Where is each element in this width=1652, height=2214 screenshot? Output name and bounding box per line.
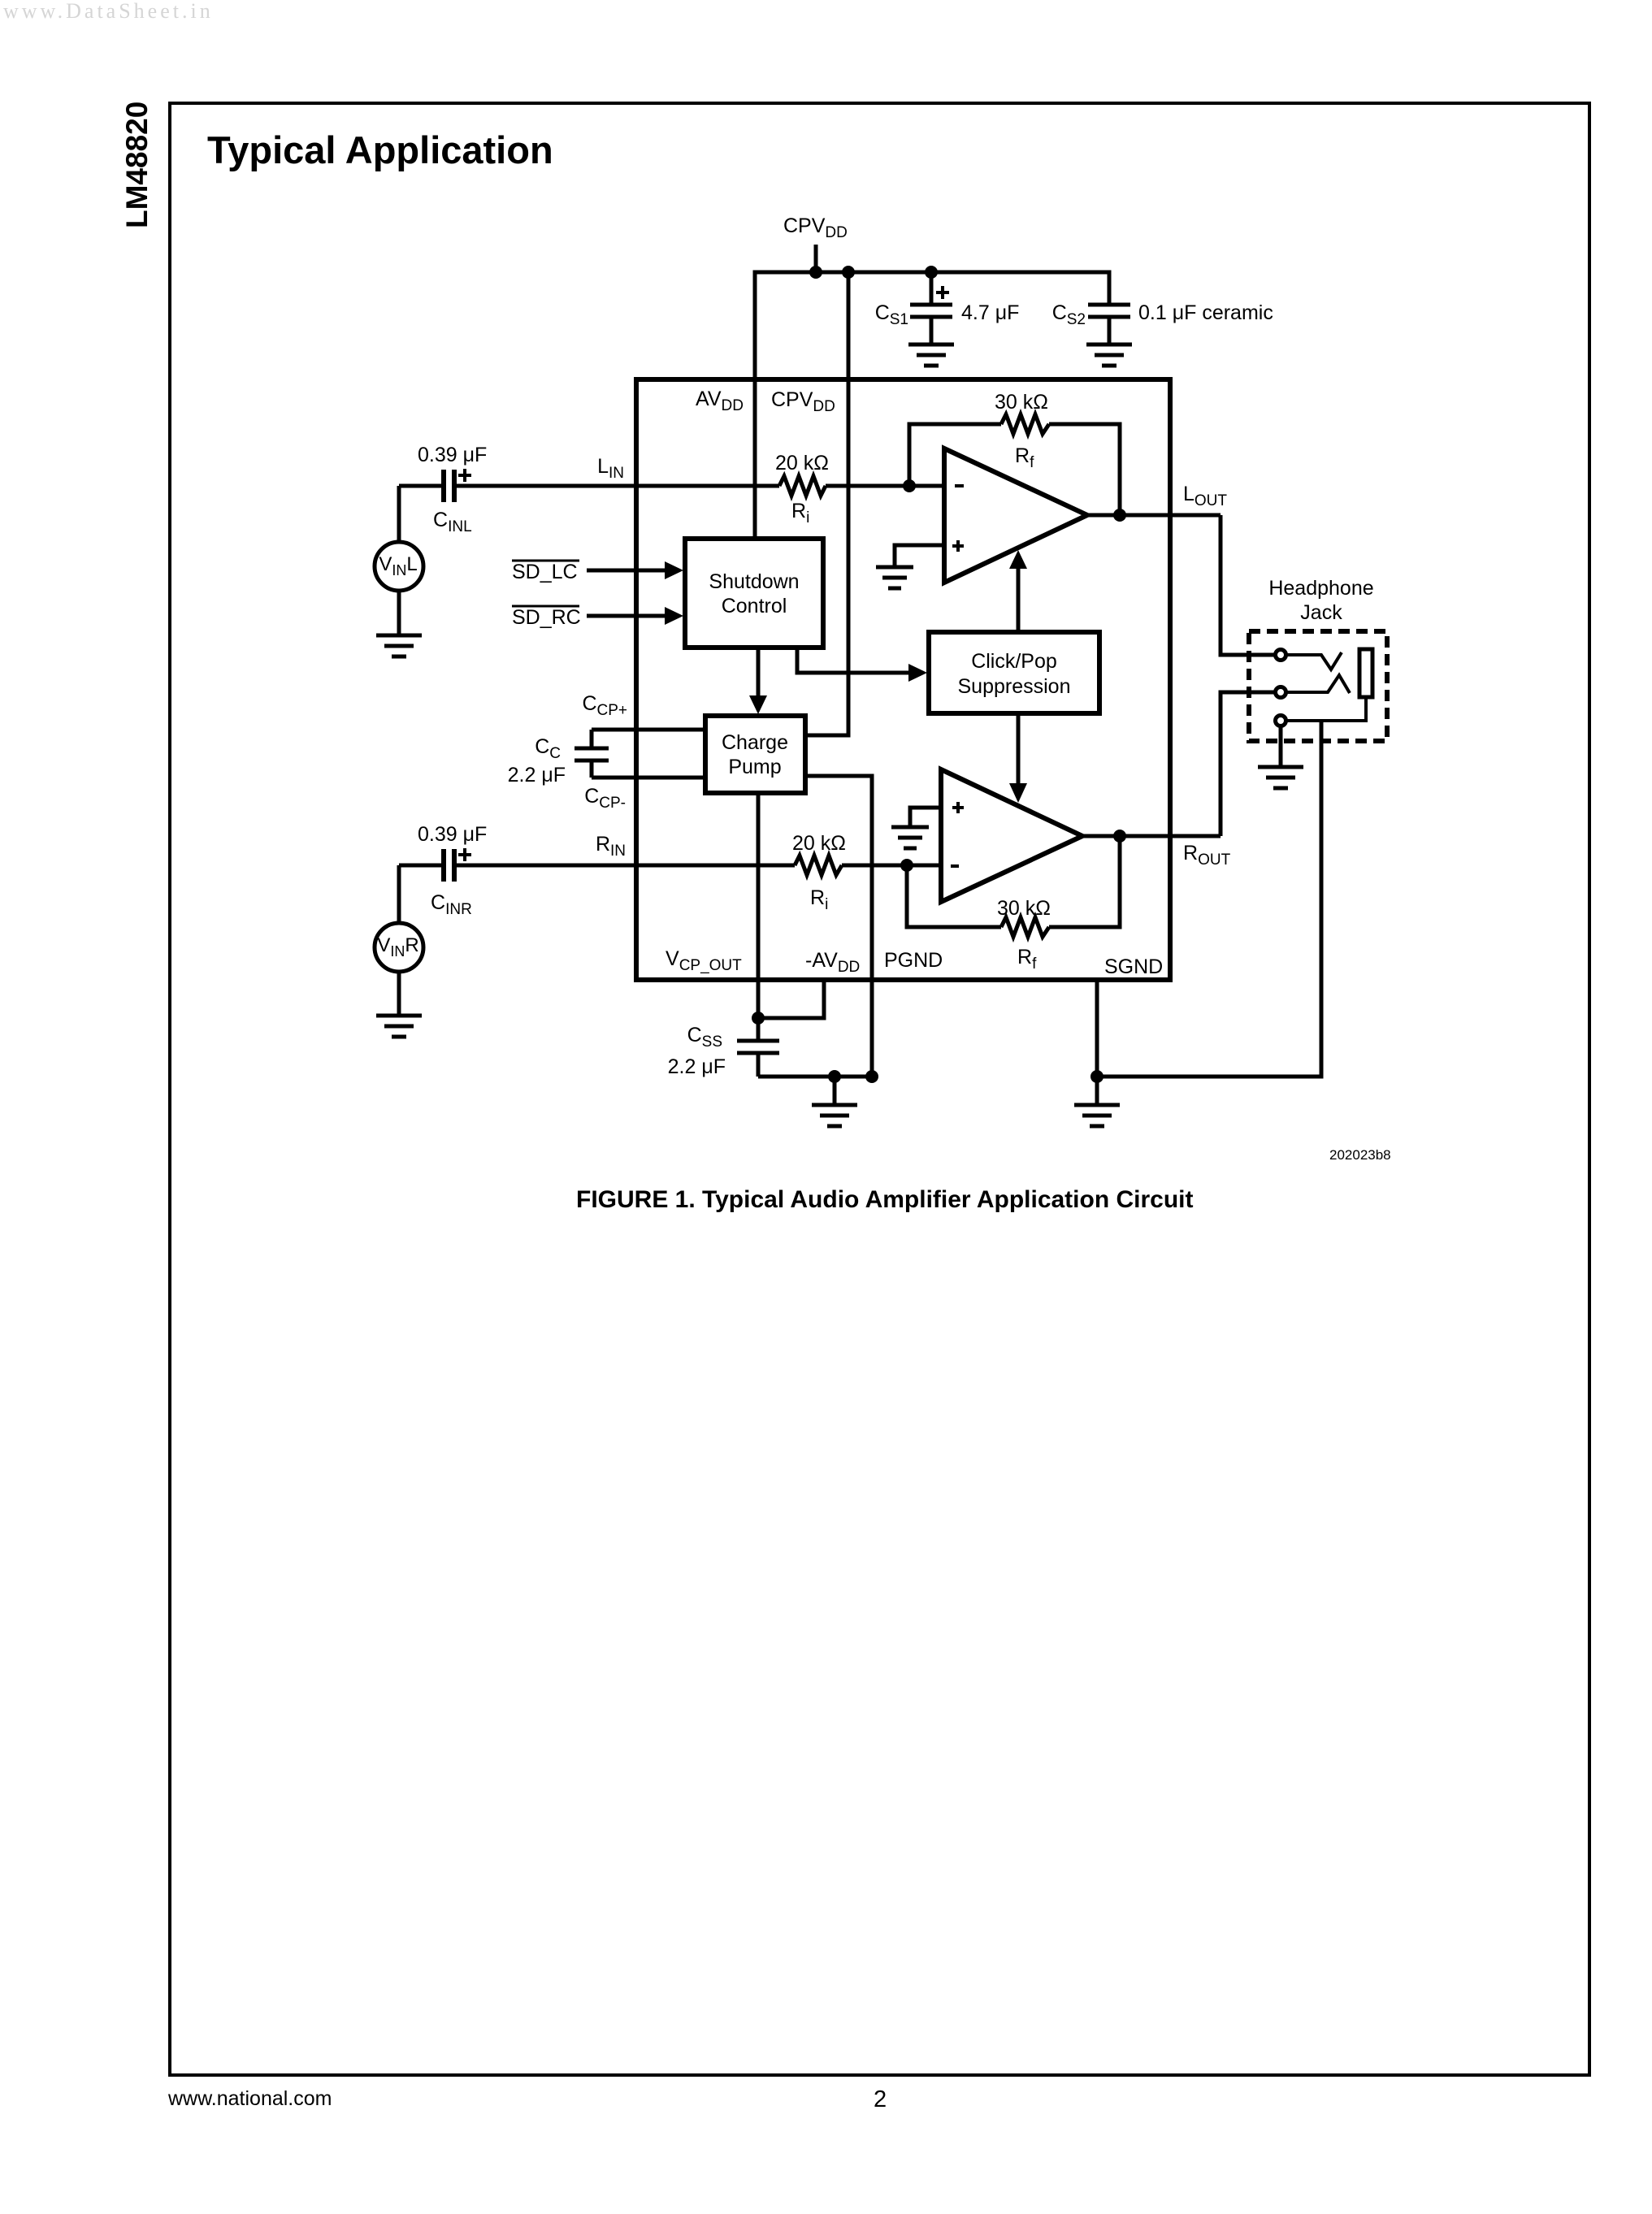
wire jack tip switch	[1286, 652, 1342, 669]
svg-text:20 kΩ: 20 kΩ	[792, 832, 846, 855]
capacitor CS1	[930, 272, 934, 303]
svg-text:PGND: PGND	[884, 949, 943, 972]
wire CPVDD rail	[755, 272, 1109, 539]
svg-text:Control: Control	[722, 595, 787, 617]
wire charge pump to PGND	[805, 776, 872, 1077]
svg-text:0.39 μF: 0.39 μF	[418, 823, 487, 846]
svg-text:Shutdown: Shutdown	[709, 570, 799, 593]
wire CPVDD internal drop to charge pump	[805, 272, 848, 735]
svg-text:Pump: Pump	[728, 756, 781, 778]
svg-text:4.7 μF: 4.7 μF	[961, 301, 1019, 324]
wire ROUT up to jack ring	[1221, 692, 1274, 836]
svg-text:20 kΩ: 20 kΩ	[775, 452, 829, 474]
wire jack ring switch	[1286, 675, 1350, 693]
wire CSS ground run to PGND	[758, 1075, 872, 1079]
svg-text:FIGURE 1. Typical Audio Amplif: FIGURE 1. Typical Audio Amplifier Applic…	[576, 1186, 1194, 1213]
wire Rf to U2 output	[1049, 836, 1120, 927]
svg-text:2: 2	[874, 2086, 887, 2112]
svg-text:30 kΩ: 30 kΩ	[995, 391, 1048, 414]
wire LIN input	[399, 484, 441, 488]
capacitor CC	[590, 730, 594, 748]
node junction CPVDD stub	[809, 266, 822, 279]
wire shutdown to click/pop arrow	[797, 648, 910, 673]
svg-text:SGND: SGND	[1104, 955, 1163, 978]
node junction CPVDD branch	[842, 266, 855, 279]
resistor Ri (right 20k)	[795, 856, 842, 875]
source VINR	[375, 923, 423, 972]
op-amp U1 (left channel)	[944, 448, 1087, 583]
op-amp U2 (right channel)	[941, 769, 1082, 902]
resistor Rf (bottom 30k)	[1001, 917, 1049, 937]
wire U1 non-inverting input to ground	[895, 545, 944, 567]
wire feedback loop U2 (inverting input to Rf)	[907, 865, 1001, 927]
wire click/pop arrow down to U2	[1017, 713, 1021, 784]
wire U1 output LOUT	[1087, 513, 1221, 518]
wire CPVDD stub	[814, 245, 818, 272]
svg-text:Suppression: Suppression	[958, 675, 1071, 698]
svg-text:Click/Pop: Click/Pop	[971, 650, 1057, 673]
wire load to sleeve	[1286, 699, 1366, 721]
wire U2 output ROUT	[1082, 834, 1221, 838]
block Shutdown Control	[685, 539, 823, 648]
svg-text:www.DataSheet.in: www.DataSheet.in	[3, 0, 214, 23]
svg-text:0.39 μF: 0.39 μF	[418, 444, 487, 466]
wire Ri to op-amp U1 inverting input	[826, 484, 944, 488]
node junction U2 output	[1113, 830, 1126, 843]
ground at U1 + input	[876, 565, 913, 570]
wire SGND stub to ground symbol	[1095, 1077, 1099, 1105]
resistor Ri (left 20k)	[779, 476, 826, 496]
resistor Rf (top 30k)	[1001, 414, 1049, 434]
wire VCP_OUT	[757, 793, 761, 1018]
wire SD_LC arrow into shutdown control	[587, 569, 666, 573]
node junction SGND	[1090, 1070, 1104, 1083]
node junction PGND pin	[865, 1070, 878, 1083]
ground under VINR	[376, 1014, 422, 1018]
svg-text:30 kΩ: 30 kΩ	[997, 897, 1051, 920]
headphone jack dashed outline	[1249, 631, 1387, 741]
ground under VINL	[376, 634, 422, 638]
svg-text:202023b8: 202023b8	[1329, 1147, 1391, 1163]
node junction CS1	[925, 266, 938, 279]
ground under CS1	[908, 343, 954, 347]
node junction U1 output	[1113, 509, 1126, 522]
svg-text:Jack: Jack	[1300, 601, 1342, 624]
node junction U1 inverting input	[903, 479, 916, 492]
ground at U2 + input	[891, 825, 929, 830]
IC LM48820 block outline	[636, 379, 1170, 980]
node junction U2 inverting input	[900, 859, 913, 872]
ground signal	[1074, 1103, 1120, 1107]
jack ring contact	[1276, 687, 1286, 698]
wire SGND to headphone jack sleeve	[1097, 721, 1321, 1077]
wire U2 non-inverting input to ground	[910, 808, 941, 827]
svg-text:0.1 μF ceramic: 0.1 μF ceramic	[1138, 301, 1273, 324]
wire CCP+	[592, 728, 705, 732]
wire shutdown to charge pump arrow	[757, 648, 761, 697]
wire stub to power ground symbol	[833, 1077, 837, 1105]
wire LIN to Ri	[454, 484, 779, 488]
wire click/pop arrow up to U1	[1017, 568, 1021, 632]
capacitor CSS	[757, 1018, 761, 1041]
wire CCP-	[592, 776, 705, 780]
wire RIN to Ri	[454, 864, 795, 868]
jack tip contact	[1276, 650, 1286, 661]
capacitor CS2	[1088, 303, 1130, 307]
ground under jack sleeve	[1258, 765, 1303, 769]
wire VINL to ground	[397, 591, 401, 635]
ground power	[812, 1103, 857, 1107]
headphone load element	[1359, 649, 1372, 697]
wire SGND pin	[1095, 980, 1099, 1077]
wire SD_RC arrow into shutdown control	[587, 614, 666, 618]
ground under CS2	[1086, 343, 1132, 347]
wire sleeve contact to ground	[1279, 726, 1283, 767]
svg-text:SD_LC: SD_LC	[512, 561, 578, 583]
svg-text:www.national.com: www.national.com	[167, 2087, 332, 2110]
node junction CSS top	[752, 1012, 765, 1025]
block Click/Pop Suppression	[929, 632, 1099, 713]
wire feedback loop U1 (inverting input to Rf)	[909, 424, 1001, 486]
wire LOUT down to jack tip	[1221, 515, 1274, 655]
page border frame	[170, 103, 1589, 2075]
jack sleeve contact	[1276, 716, 1286, 726]
source VINL	[375, 542, 423, 591]
wire -AVDD pin	[758, 980, 824, 1018]
block Charge Pump	[705, 716, 805, 793]
svg-text:SD_RC: SD_RC	[512, 606, 581, 629]
capacitor CINR	[441, 849, 446, 882]
wire VINR to ground	[397, 972, 401, 1016]
svg-text:Headphone: Headphone	[1268, 577, 1373, 600]
wire Ri to op-amp U2 inverting input	[842, 864, 941, 868]
capacitor CINL	[441, 470, 446, 502]
node junction power ground	[828, 1070, 841, 1083]
wire VINR to coupling cap	[397, 865, 401, 923]
wire VINL to coupling cap	[397, 486, 401, 542]
svg-text:2.2 μF: 2.2 μF	[508, 764, 566, 786]
svg-text:Typical Application: Typical Application	[207, 128, 553, 171]
wire Rf to U1 output	[1049, 424, 1120, 515]
svg-text:LM48820: LM48820	[120, 102, 154, 228]
wire RIN input	[399, 864, 441, 868]
svg-text:2.2 μF: 2.2 μF	[668, 1055, 726, 1078]
svg-text:Charge: Charge	[722, 731, 788, 754]
